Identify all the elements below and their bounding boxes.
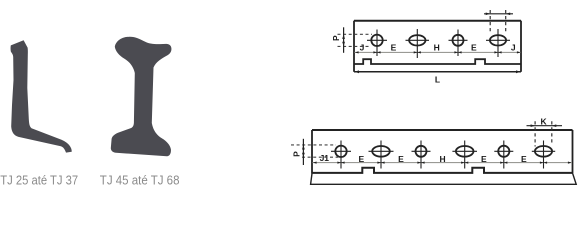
rail joint bar profile TJ 45-68 (fishplate silhouette) <box>111 37 172 157</box>
svg-text:E: E <box>471 43 477 53</box>
top hole-width dimension line <box>484 13 513 15</box>
hole H2 (oval) with centerlines <box>409 35 425 45</box>
hole B6 (oval) with centerlines <box>535 146 552 157</box>
P dimension (hole diameter) extension lines <box>338 33 373 35</box>
fishing surface line with two bumps <box>312 168 573 173</box>
hole B2 (oval) with centerlines <box>372 146 390 157</box>
svg-text:P: P <box>291 151 301 157</box>
svg-text:E: E <box>521 154 527 164</box>
hole B4 (oval) with centerlines <box>456 146 474 157</box>
hole H4 (oval) with centerlines <box>490 35 506 45</box>
horizontal spacing dimension line (gray) <box>313 162 573 164</box>
svg-text:E: E <box>391 43 397 53</box>
svg-text:J: J <box>511 43 516 53</box>
horizontal spacing dimension line (gray) <box>355 51 521 53</box>
svg-text:H: H <box>440 154 446 164</box>
L dimension arrowheads <box>355 70 521 73</box>
top hole-width dimension (unlabeled) extension lines <box>489 10 491 34</box>
lower flange strip <box>311 173 577 184</box>
svg-text:TJ 25 até TJ 37: TJ 25 até TJ 37 <box>0 173 78 188</box>
rail joint bar profile TJ 25-37 (angle bar silhouette) <box>11 40 72 152</box>
hole B5 (round) with centerlines <box>498 146 509 157</box>
bar right edge <box>572 130 574 173</box>
svg-text:E: E <box>481 154 487 164</box>
hole B3 (round) with centerlines <box>416 146 427 157</box>
P dimension (hole diameter) extension lines <box>291 144 336 146</box>
P dimension line with arrows <box>302 139 304 165</box>
bar right edge <box>520 21 522 72</box>
svg-text:J: J <box>360 43 365 53</box>
svg-text:L: L <box>435 75 440 85</box>
svg-text:E: E <box>398 154 404 164</box>
svg-text:E: E <box>358 154 364 164</box>
hole B1 (round) with centerlines <box>335 146 346 157</box>
bar left edge <box>353 21 355 72</box>
dimension arrow ticks <box>355 51 521 53</box>
fishing surface line with two bumps <box>354 59 521 64</box>
svg-text:TJ 45 até TJ 68: TJ 45 até TJ 68 <box>100 173 180 188</box>
K dimension line <box>527 125 563 127</box>
svg-text:H: H <box>434 43 440 53</box>
svg-text:P: P <box>331 35 341 41</box>
bar top edge <box>354 20 521 22</box>
bar bottom edge / L dimension line <box>354 71 521 73</box>
svg-text:J1: J1 <box>320 153 330 163</box>
bar left edge <box>311 130 313 174</box>
dimension arrow ticks <box>313 162 572 164</box>
hole H3 (round) with centerlines <box>453 35 464 46</box>
K dimension extension lines <box>534 121 536 146</box>
svg-text:K: K <box>541 117 548 127</box>
bar top edge <box>312 129 573 131</box>
hole H1 (round) with centerlines <box>371 35 382 46</box>
P dimension line with arrows <box>343 27 345 53</box>
